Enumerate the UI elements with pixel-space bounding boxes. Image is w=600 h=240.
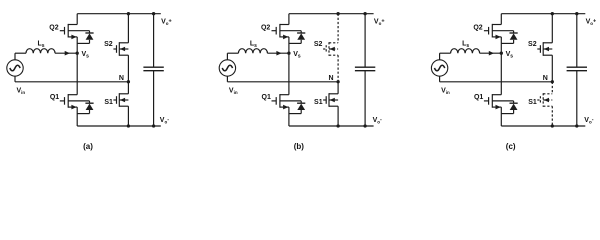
svg-text:Vo-: Vo- — [373, 117, 382, 124]
svg-text:S1: S1 — [528, 99, 537, 106]
node N — [127, 80, 130, 83]
label S2 — [104, 41, 113, 48]
AC voltage source Vin — [431, 60, 447, 76]
body diode of Q1 — [501, 103, 517, 113]
transistor S2 — [537, 14, 552, 82]
transistor Q1 — [60, 53, 90, 126]
inductor Ls — [26, 49, 55, 54]
wire: inductor to node Vs with current arrow — [480, 51, 502, 56]
svg-text:N: N — [119, 75, 124, 82]
svg-text:Q1: Q1 — [50, 94, 59, 101]
label node Vs — [82, 51, 90, 59]
label Vo- — [160, 117, 169, 124]
transistor Q2 — [60, 14, 90, 54]
wire: source bottom to node N — [440, 76, 553, 82]
wire: source bottom to node N — [227, 76, 338, 82]
output capacitor — [567, 14, 587, 126]
label Vo+ — [586, 18, 597, 25]
node Vs — [500, 52, 503, 55]
AC voltage source Vin — [219, 60, 235, 76]
wire: top rail to Vo+ — [501, 13, 585, 15]
svg-text:Vo+: Vo+ — [374, 18, 385, 25]
label S1 — [528, 99, 537, 106]
transistor Q1 — [272, 53, 302, 126]
label node N — [119, 75, 124, 82]
label Q2 — [261, 25, 270, 32]
label node N — [329, 75, 334, 82]
svg-text:Q2: Q2 — [49, 25, 58, 32]
label S2 — [528, 41, 537, 48]
svg-text:S1: S1 — [104, 99, 113, 106]
wire: source bottom to node N — [15, 76, 128, 82]
label Vo+ — [161, 18, 172, 25]
caption (a) — [83, 142, 93, 151]
transistor Q2 — [272, 14, 302, 54]
svg-text:Vo-: Vo- — [584, 117, 593, 124]
label Ls — [462, 41, 469, 49]
svg-text:S2: S2 — [528, 41, 537, 48]
node N — [336, 80, 339, 83]
junction dots on bottom rail — [336, 124, 366, 127]
svg-text:(a): (a) — [83, 142, 93, 151]
junction dots on top rail — [336, 12, 366, 15]
transistor S1 (dashed) — [537, 82, 552, 126]
svg-text:Ls: Ls — [250, 41, 257, 49]
body diode of Q2 — [501, 33, 517, 43]
svg-text:Vs: Vs — [293, 51, 301, 59]
wire: top rail to Vo+ — [289, 13, 374, 15]
node Vs — [287, 52, 290, 55]
label Q1 — [474, 94, 483, 101]
body diode of Q2 — [77, 33, 93, 43]
svg-text:Q1: Q1 — [474, 94, 483, 101]
wire: source top to inductor — [227, 53, 238, 60]
AC voltage source Vin — [7, 60, 23, 76]
transistor S2 — [113, 14, 128, 82]
svg-text:(c): (c) — [506, 142, 516, 151]
label Q2 — [473, 25, 482, 32]
svg-text:Vin: Vin — [229, 87, 238, 94]
label Q1 — [262, 94, 271, 101]
junction dots on top rail — [551, 12, 579, 15]
svg-text:Vo+: Vo+ — [586, 18, 597, 25]
label S2 — [314, 41, 323, 48]
label Q1 — [50, 94, 59, 101]
wire: source top to inductor — [15, 53, 26, 60]
junction dots on top rail — [127, 12, 156, 15]
wire: source top to inductor — [440, 53, 451, 60]
wire: bottom rail to Vo- — [289, 125, 374, 127]
node N — [551, 80, 554, 83]
svg-text:Q1: Q1 — [262, 94, 271, 101]
junction dots on bottom rail — [551, 124, 579, 127]
label node N — [543, 75, 548, 82]
transistor Q1 — [484, 53, 514, 126]
node Vs — [76, 52, 79, 55]
caption (c) — [506, 142, 516, 151]
label Q2 — [49, 25, 58, 32]
svg-text:N: N — [329, 75, 334, 82]
output capacitor — [355, 14, 375, 126]
inductor Ls — [451, 49, 480, 54]
wire: inductor to node Vs with current arrow — [267, 51, 289, 56]
svg-text:S1: S1 — [314, 99, 323, 106]
label node Vs — [506, 51, 514, 59]
transistor S1 — [323, 82, 338, 126]
label Vo- — [584, 117, 593, 124]
svg-text:N: N — [543, 75, 548, 82]
label Vin — [441, 87, 450, 94]
svg-text:Vin: Vin — [441, 87, 450, 94]
inductor Ls — [238, 49, 267, 54]
body diode of Q1 — [289, 103, 305, 113]
svg-text:Vo-: Vo- — [160, 117, 169, 124]
svg-text:S2: S2 — [314, 41, 323, 48]
label Ls — [250, 41, 257, 49]
transistor Q2 — [484, 14, 514, 54]
svg-text:Ls: Ls — [37, 41, 44, 49]
svg-text:Q2: Q2 — [261, 25, 270, 32]
label S1 — [314, 99, 323, 106]
label Ls — [37, 41, 44, 49]
junction dots on bottom rail — [127, 124, 156, 127]
wire: top rail to Vo+ — [77, 13, 161, 15]
output capacitor — [143, 14, 163, 126]
transistor S2 (dashed) — [323, 14, 338, 82]
svg-text:Vo+: Vo+ — [161, 18, 172, 25]
wire: bottom rail to Vo- — [77, 125, 161, 127]
svg-text:Vin: Vin — [17, 87, 26, 94]
svg-text:Vs: Vs — [506, 51, 514, 59]
label Vin — [229, 87, 238, 94]
wire: bottom rail to Vo- — [501, 125, 585, 127]
transistor S1 — [113, 82, 128, 126]
body diode of Q2 — [289, 33, 305, 43]
svg-text:Vs: Vs — [82, 51, 90, 59]
label S1 — [104, 99, 113, 106]
body diode of Q1 — [77, 103, 93, 113]
svg-text:(b): (b) — [294, 142, 305, 151]
label node Vs — [293, 51, 301, 59]
label Vin — [17, 87, 26, 94]
label Vo- — [373, 117, 382, 124]
caption (b) — [294, 142, 305, 151]
svg-text:Q2: Q2 — [473, 25, 482, 32]
svg-text:S2: S2 — [104, 41, 113, 48]
wire: inductor to node Vs with current arrow — [55, 51, 77, 56]
svg-text:Ls: Ls — [462, 41, 469, 49]
label Vo+ — [374, 18, 385, 25]
